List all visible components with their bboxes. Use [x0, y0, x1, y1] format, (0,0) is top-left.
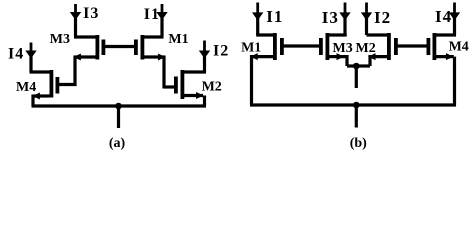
svg-text:M1: M1 — [241, 41, 261, 56]
transistor M2 (a) — [174, 70, 184, 99]
M4 gate lead (a) — [59, 83, 77, 86]
M2 source lead with arrow (b) — [368, 53, 387, 60]
svg-text:I3: I3 — [322, 8, 339, 27]
svg-text:M2: M2 — [356, 41, 376, 56]
svg-text:M4: M4 — [16, 80, 36, 95]
transistor M4 (a) — [50, 70, 60, 98]
wire I4 to M4 drain (b) — [436, 18, 456, 35]
M2 source step-down wire (b) — [356, 55, 370, 66]
current source arrow I2 (a) — [199, 41, 210, 59]
tail stub wire (a) — [117, 106, 120, 128]
current source arrow I2 (b) — [361, 3, 372, 21]
svg-text:(b): (b) — [350, 136, 367, 151]
svg-text:M4: M4 — [449, 40, 469, 55]
wire M4 source to rail (a) — [31, 95, 34, 107]
M2 source lead with arrow (a) — [184, 92, 204, 99]
transistor M1 (a) — [134, 35, 144, 60]
wire M2 source to rail (a) — [203, 96, 206, 107]
wire I2 to M2 drain (a) — [184, 56, 206, 72]
M1 source lead with arrow (b) — [250, 53, 273, 60]
M4 source lead with arrow (b) — [436, 53, 454, 60]
svg-text:I3: I3 — [83, 5, 99, 22]
wire I3 to M3 drain (a) — [74, 18, 96, 37]
M3 source step-down wire (b) — [347, 55, 356, 66]
wire M1 source to rail (b) — [250, 55, 253, 105]
current source arrow I3 (b) — [339, 3, 350, 21]
M3 source lead with arrow (b) — [329, 53, 349, 60]
svg-text:M3: M3 — [333, 41, 353, 56]
wire M3 source to M4 gate (a) — [73, 56, 76, 87]
M1 source lead with arrow (a) — [144, 54, 166, 61]
svg-text:I1: I1 — [266, 7, 283, 26]
bottom rail wire (a) — [32, 104, 207, 107]
transistor M3 (a) — [96, 35, 106, 60]
svg-text:(a): (a) — [109, 136, 126, 151]
wire M4 source to rail (b) — [453, 57, 456, 105]
node dot on rail (b) — [353, 102, 360, 109]
svg-text:I2: I2 — [374, 8, 391, 27]
M4 source lead with arrow (a) — [32, 93, 49, 100]
gate line M3-M1 (a) — [105, 45, 134, 48]
tail stub wire (b) — [355, 105, 358, 128]
svg-text:I4: I4 — [435, 7, 452, 26]
gate line M2-M4 (b) — [398, 44, 427, 47]
gate line M1-M3 (b) — [284, 44, 320, 47]
transistor M2 (b) — [387, 33, 398, 60]
svg-text:I1: I1 — [144, 6, 160, 23]
wire M1 source to M2 gate (a) — [162, 56, 165, 89]
current source arrow I3 (a) — [70, 4, 81, 20]
svg-text:I2: I2 — [213, 43, 229, 60]
transistor M4 (b) — [427, 33, 437, 60]
svg-text:M2: M2 — [202, 80, 222, 95]
wire I1 to M1 drain (b) — [256, 18, 273, 35]
svg-text:I4: I4 — [8, 45, 24, 62]
wire I1 to M1 drain (a) — [144, 18, 164, 37]
transistor M1 (b) — [273, 33, 284, 60]
svg-text:M1: M1 — [168, 32, 188, 47]
current source arrow I4 (a) — [25, 43, 36, 59]
node dot on rail (a) — [115, 103, 122, 110]
wire I4 to M4 drain (a) — [30, 56, 50, 72]
wire I3 to M3 drain (b) — [329, 18, 347, 35]
current source arrow I1 (b) — [252, 3, 263, 21]
svg-text:M3: M3 — [50, 32, 70, 47]
current source arrow I1 (a) — [156, 4, 167, 20]
wire I2 to M2 drain (b) — [367, 18, 388, 35]
M3 source lead with arrow (a) — [73, 54, 95, 61]
M2 gate lead (a) — [164, 85, 174, 88]
node dot M3/M2 sources (b) — [353, 63, 360, 70]
transistor M3 (b) — [319, 33, 329, 60]
bottom rail wire (b) — [250, 103, 456, 106]
current source arrow I4 (b) — [449, 3, 460, 21]
tail stub from source node (b) — [355, 66, 358, 88]
